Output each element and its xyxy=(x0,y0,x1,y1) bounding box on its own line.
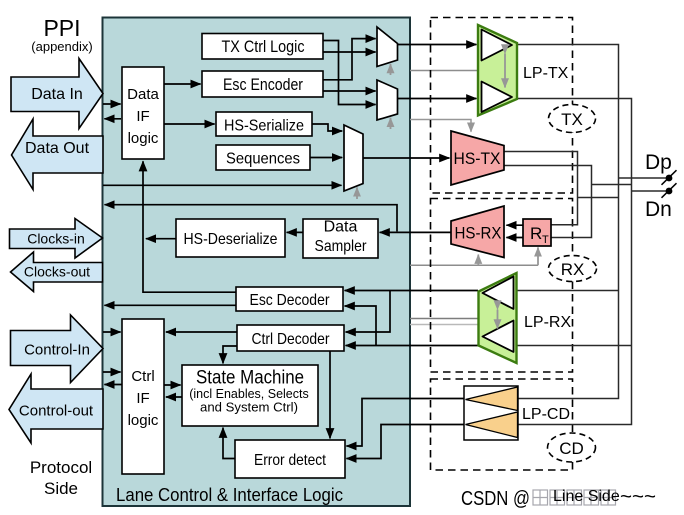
svg-text:HS-Serialize: HS-Serialize xyxy=(224,118,304,135)
buffer LP-RX xyxy=(479,273,517,363)
svg-text:Data: Data xyxy=(324,219,358,236)
svg-text:Dn: Dn xyxy=(645,198,672,221)
gray arrow up into HS-RX xyxy=(477,255,479,266)
arrow Data In xyxy=(11,59,103,129)
box Data Sampler xyxy=(303,219,378,258)
box Error detect xyxy=(235,440,345,478)
wire Data IF to Esc Encoder xyxy=(164,83,201,85)
svg-text:State Machine: State Machine xyxy=(196,368,304,389)
wire node vertical to Data IF bottom xyxy=(143,161,236,292)
wire Data IF to PPI (out) xyxy=(104,118,121,120)
svg-text:Line Side: Line Side xyxy=(553,488,620,505)
svg-text:HS-Deserialize: HS-Deserialize xyxy=(184,231,278,248)
wire PPI to Ctrl IF in1 xyxy=(103,331,121,333)
wire HS-TX out2 branch to Dn rail xyxy=(592,184,632,186)
wire Ctrl IF to State Machine xyxy=(164,384,181,386)
mux M3 (serializer mux) xyxy=(344,125,363,191)
wire PPI to Ctrl IF in2 xyxy=(103,371,121,373)
svg-text:(incl Enables, Selects: (incl Enables, Selects xyxy=(189,387,309,401)
dashed box RX xyxy=(431,199,573,373)
arrow Control-out xyxy=(9,374,103,443)
wire LP-RX out2 to Ctrl Decoder xyxy=(346,345,478,347)
arrow Clocks-in xyxy=(10,219,103,259)
wire Ctrl IF out to PPI xyxy=(104,384,122,386)
box TX Ctrl Logic xyxy=(202,34,323,60)
svg-text:~~~: ~~~ xyxy=(620,485,656,508)
box State Machine xyxy=(182,365,318,426)
wire RT to HS-RX in1 xyxy=(506,224,523,226)
wire LP-CD out1 to Error detect xyxy=(346,399,464,447)
svg-text:LP-CD: LP-CD xyxy=(522,406,570,423)
node CD (dashed oval) xyxy=(548,433,596,462)
svg-text:Side: Side xyxy=(44,479,78,498)
wire line A (PPI to serial mux) xyxy=(103,184,342,186)
svg-text:Control-In: Control-In xyxy=(24,342,90,359)
detector LP-CD xyxy=(464,386,518,440)
amplifier HS-RX xyxy=(451,206,504,258)
gray enable line to LP-RX xyxy=(410,318,478,320)
gray enable line 2 to LP-RX xyxy=(410,324,478,326)
box Ctrl Decoder xyxy=(237,325,344,351)
node RX (dashed oval) xyxy=(549,256,597,282)
svg-text:IF: IF xyxy=(136,108,149,125)
svg-text:and System Ctrl): and System Ctrl) xyxy=(200,401,298,415)
resistor RT xyxy=(523,219,551,246)
svg-text:logic: logic xyxy=(128,130,159,147)
arrow Clocks-out xyxy=(11,252,103,292)
svg-text:Error detect: Error detect xyxy=(254,452,326,469)
wire Esc Decoder out to PPI xyxy=(104,304,236,306)
svg-text:Data: Data xyxy=(127,86,159,103)
wire RT to HS-RX in2 xyxy=(506,237,523,239)
wire HS-TX out2 down to RT xyxy=(504,166,592,238)
wire Dn rail to LP-RX in2 xyxy=(517,345,632,347)
svg-text:Esc Decoder: Esc Decoder xyxy=(250,292,331,309)
pin Dn xyxy=(632,183,677,221)
svg-text:TX Ctrl Logic: TX Ctrl Logic xyxy=(222,37,305,56)
wire Data Sampler to HS-Deserialize xyxy=(287,231,303,233)
wire Data IF to HS-Serialize xyxy=(164,123,215,125)
svg-text:IF: IF xyxy=(136,390,149,407)
node TX (dashed oval) xyxy=(549,105,596,133)
svg-text:Ctrl Decoder: Ctrl Decoder xyxy=(252,331,331,348)
box HS-Serialize xyxy=(216,112,312,136)
wire Ctrl Decoder to Ctrl IF xyxy=(166,331,237,333)
svg-text:Data Out: Data Out xyxy=(25,140,90,157)
wire Ctrl Decoder branch to State Machine xyxy=(223,346,237,363)
wire Dp rail to LP-RX in1 xyxy=(517,290,619,292)
wire PPI to Data IF (in) xyxy=(103,103,121,105)
box Data IF logic xyxy=(122,67,164,159)
wire TX Ctrl Logic out2 to mux M1 xyxy=(323,51,376,53)
svg-text:Clocks-in: Clocks-in xyxy=(27,231,85,247)
svg-text:Sampler: Sampler xyxy=(315,238,368,255)
arrow Control-In xyxy=(11,315,104,383)
gray enable to HS-TX xyxy=(410,120,471,132)
wire State Machine to Ctrl IF xyxy=(166,396,182,398)
wire mux M1 to LP-TX in1 xyxy=(398,44,477,46)
mux M1 xyxy=(377,27,398,67)
svg-text:Sequences: Sequences xyxy=(226,151,300,168)
box Esc Decoder xyxy=(236,287,343,311)
dashed box TX xyxy=(431,18,573,194)
wire branch to Esc Decoder in2 xyxy=(345,306,376,346)
svg-text:PPI: PPI xyxy=(43,15,80,41)
box Esc Encoder xyxy=(202,71,323,97)
arrow Data Out xyxy=(12,119,104,190)
wire mux M3 to HS-TX xyxy=(363,157,449,159)
svg-text:Esc Encoder: Esc Encoder xyxy=(223,75,303,94)
wire HS-TX out1 branch to Dp rail xyxy=(578,197,619,199)
svg-text:logic: logic xyxy=(128,412,159,429)
gray select arrow mux M1 xyxy=(390,64,392,75)
svg-text:Ctrl: Ctrl xyxy=(131,368,154,385)
wire mux M2 to LP-TX in2 xyxy=(398,98,477,100)
wire LP-RX out1 to Esc Decoder xyxy=(345,290,478,292)
wire HS-Deserialize out to node xyxy=(146,238,176,240)
gray enable line to HS-RX and RT xyxy=(410,264,538,266)
lane control block (teal background box) xyxy=(103,18,411,507)
svg-text:Clocks-out: Clocks-out xyxy=(24,264,90,280)
box Ctrl IF logic xyxy=(122,319,164,474)
gray select arrow mux M2 xyxy=(390,118,392,129)
svg-text:Dp: Dp xyxy=(645,151,672,174)
wire Esc Encoder out1 to mux M1 xyxy=(323,39,376,80)
wire LP-CD out2 to Error detect xyxy=(346,425,464,459)
wire HS-Serialize to mux M3 xyxy=(312,124,342,131)
box HS-Deserialize xyxy=(176,219,285,257)
wire LP-TX out1 to Dp rail xyxy=(517,45,619,399)
svg-text:T: T xyxy=(542,234,549,246)
wire HS-RX output to Data Sampler xyxy=(380,231,451,233)
svg-text:HS-TX: HS-TX xyxy=(454,149,501,168)
svg-text:LP-TX: LP-TX xyxy=(523,65,569,82)
svg-text:(appendix): (appendix) xyxy=(31,39,92,54)
wire branch to Ctrl Decoder in1 xyxy=(346,291,390,333)
wire TX Ctrl Logic out1 to mux M2 xyxy=(323,41,376,105)
svg-text:Control-out: Control-out xyxy=(19,403,94,420)
mux M2 xyxy=(377,80,398,120)
wire Ctrl Decoder to Error detect xyxy=(329,351,331,438)
svg-text:Protocol: Protocol xyxy=(30,458,92,477)
svg-text:Lane Control & Interface Logic: Lane Control & Interface Logic xyxy=(116,484,343,505)
gray select arrow mux M3 xyxy=(356,187,358,199)
svg-text:CD: CD xyxy=(559,439,584,458)
watermark CSDN xyxy=(461,485,656,510)
svg-text:Data In: Data In xyxy=(31,86,83,103)
wire Esc Encoder out2 to mux M2 xyxy=(323,90,376,92)
amplifier HS-TX xyxy=(451,131,504,185)
box Sequences xyxy=(216,145,310,170)
svg-text:TX: TX xyxy=(561,110,583,129)
wire Sequences to mux M3 xyxy=(310,157,342,159)
pin Dp xyxy=(619,151,677,185)
dashed box CD xyxy=(431,379,573,470)
gray enable line to LP-TX xyxy=(410,70,477,72)
wire LP-TX out2 to Dn rail xyxy=(517,99,632,425)
gray arrow up into RT xyxy=(537,247,539,265)
wire Error detect to State Machine xyxy=(223,428,235,459)
svg-text:LP-RX: LP-RX xyxy=(524,314,571,331)
svg-text:HS-RX: HS-RX xyxy=(455,224,502,243)
svg-text:R: R xyxy=(530,224,542,243)
wire HS-TX out1 down to RT xyxy=(504,152,578,225)
wire line B (sampler node to PPI, arrow left) xyxy=(105,205,398,232)
buffer LP-TX xyxy=(478,25,517,116)
svg-text:CSDN @: CSDN @ xyxy=(461,487,530,510)
svg-text:RX: RX xyxy=(561,260,585,279)
